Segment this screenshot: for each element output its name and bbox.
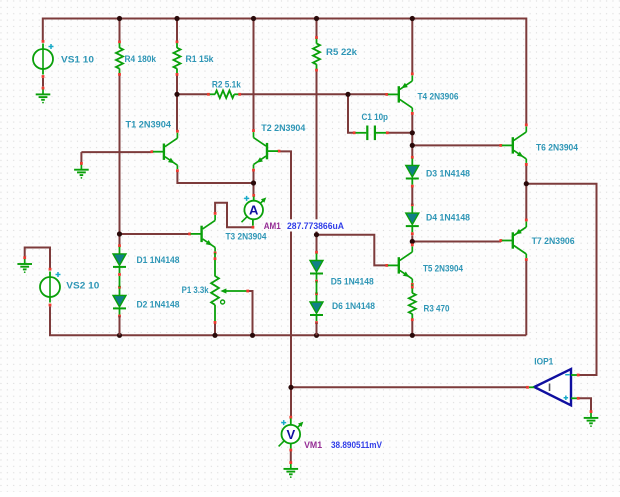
node D3 / T6 base — [410, 143, 415, 148]
node D5 / T5 base — [314, 232, 319, 237]
diode D4 — [406, 204, 419, 236]
node bottom rail / D2 — [117, 333, 122, 338]
svg-text:A: A — [249, 203, 259, 218]
svg-text:D2 1N4148: D2 1N4148 — [137, 299, 180, 310]
node D1 / T3 base — [117, 231, 122, 236]
svg-text:R2 5.1k: R2 5.1k — [212, 80, 242, 91]
diode D1 — [113, 244, 126, 276]
wire R4 top — [119, 19, 121, 42]
svg-text:IOP1: IOP1 — [534, 356, 554, 367]
transistor T6 — [499, 124, 527, 166]
ground VS1 — [36, 78, 51, 103]
wire T3 emitter to P1 — [214, 253, 216, 259]
voltage source VS1 — [33, 40, 54, 78]
svg-text:T2 2N3904: T2 2N3904 — [261, 123, 306, 134]
wire IOP1 output row — [291, 386, 528, 388]
svg-text:V: V — [286, 427, 295, 442]
ammeter AM1 — [242, 194, 267, 229]
svg-text:T7 2N3906: T7 2N3906 — [532, 236, 575, 247]
wire T6 emitter to T7 emitter — [525, 164, 527, 220]
diode D5 — [310, 251, 323, 283]
node bottom rail / P1 — [212, 333, 217, 338]
svg-text:T6 2N3904: T6 2N3904 — [536, 143, 579, 154]
wire R5 top — [316, 19, 318, 38]
node R1 / R2 — [174, 92, 179, 97]
wire T3 collector to AM1 — [215, 203, 253, 227]
resistor R1 — [174, 41, 181, 76]
node T4 collector / C1 — [410, 130, 415, 135]
node bottom rail / P1 wiper — [250, 333, 255, 338]
wire T7 collector down — [525, 260, 527, 336]
wire T5 emitter to R3 — [411, 284, 413, 288]
resistor R4 — [116, 41, 123, 76]
wire T1 emitter to node E — [177, 171, 253, 183]
op-amp buffer IOP1 — [526, 369, 580, 405]
wire R1 bottom to T1 collector — [176, 75, 178, 132]
svg-text:T1 2N3904: T1 2N3904 — [126, 119, 172, 130]
node top rail / T2 collector — [251, 16, 256, 21]
svg-text:287.773866uA: 287.773866uA — [287, 221, 344, 232]
node top rail / R4 — [117, 16, 122, 21]
svg-text:D4 1N4148: D4 1N4148 — [426, 212, 470, 223]
wire bottom rail — [50, 307, 526, 336]
capacitor C1 — [353, 126, 389, 141]
node feedback / IOP1 output — [288, 385, 293, 390]
node emitters T1 T2 — [251, 180, 256, 185]
wire D2 to rail — [119, 316, 121, 335]
wire node R2 left — [177, 93, 209, 95]
wire P1 bottom to rail — [214, 322, 216, 335]
wire P1 wiper to rail — [248, 291, 253, 335]
svg-text:D5 1N4148: D5 1N4148 — [331, 276, 374, 287]
svg-text:C1 10p: C1 10p — [362, 112, 389, 123]
wire VM1 to ground — [290, 450, 292, 463]
wire R1 top — [176, 19, 178, 42]
wire D5 to D6 — [316, 281, 318, 294]
diode D3 — [406, 156, 419, 188]
wire C1 right to T4 collector — [389, 132, 413, 134]
svg-text:T3 2N3904: T3 2N3904 — [226, 231, 268, 242]
transistor T3 — [188, 212, 216, 254]
wire R4 bottom to D1 — [119, 75, 121, 246]
transistor T5 — [385, 244, 413, 286]
wire node E to AM1 — [253, 171, 255, 196]
diode D2 — [113, 286, 126, 318]
node D4 / T5 collector / T7 base — [410, 239, 415, 244]
wire D1 to D2 — [119, 276, 121, 287]
wire D6 to rail — [316, 323, 318, 336]
svg-text:AM1: AM1 — [264, 221, 282, 232]
wire D3 to D4 — [411, 188, 413, 205]
node top rail / T4 emitter — [410, 16, 415, 21]
svg-text:T4 2N3906: T4 2N3906 — [418, 91, 459, 102]
wire VS2 plus to ground — [25, 248, 50, 269]
ground VM1 — [284, 461, 299, 478]
wire C1 left branch — [348, 94, 355, 133]
svg-text:D1 1N4148: D1 1N4148 — [137, 255, 180, 266]
svg-text:VS1 10: VS1 10 — [61, 54, 94, 65]
svg-text:D3 1N4148: D3 1N4148 — [426, 168, 470, 179]
transistor T1 — [151, 130, 179, 172]
resistor R5 — [313, 36, 320, 71]
svg-text:R1 15k: R1 15k — [186, 54, 215, 65]
node top rail / R1 — [174, 16, 179, 21]
wire to T5 base — [317, 235, 387, 266]
svg-text:R5 22k: R5 22k — [326, 47, 358, 58]
wire top supply rail — [43, 19, 527, 126]
wire T2 base feedback line — [279, 151, 292, 417]
ground VS2 — [17, 256, 32, 273]
node output emitters T6 T7 — [524, 181, 529, 186]
node top rail / R5 — [314, 16, 319, 21]
transistor T7 — [499, 219, 527, 261]
wire output to IOP1 inverting input — [526, 184, 596, 375]
svg-text:38.890511mV: 38.890511mV — [331, 440, 383, 451]
resistor R3 — [409, 286, 416, 321]
wire T2 collector drop — [253, 19, 255, 132]
wire top rail to T4 emitter — [411, 19, 413, 76]
ground T1 base — [74, 162, 89, 179]
voltage source VS2 — [40, 268, 61, 307]
wire node to T7 base — [412, 241, 501, 243]
wire D4 to T5 collector node — [411, 235, 413, 246]
node bottom rail / D6 — [314, 333, 319, 338]
wire R2 to T4 base — [240, 93, 388, 95]
value AM1 287.773866uA — [284, 219, 347, 231]
transistor T2 — [252, 129, 280, 171]
svg-text:VS2 10: VS2 10 — [66, 281, 99, 292]
voltmeter VM1 — [279, 416, 304, 452]
wire T1 base to ground — [81, 151, 151, 153]
wire T4 collector to D3 — [411, 114, 413, 157]
diode D6 — [310, 292, 323, 324]
svg-text:R3 470: R3 470 — [424, 303, 450, 314]
resistor R2 — [207, 91, 241, 99]
wire R5 bottom to D5 — [316, 70, 318, 252]
transistor T4 — [385, 73, 413, 115]
svg-text:VM1: VM1 — [304, 440, 323, 451]
svg-text:R4 180k: R4 180k — [125, 54, 157, 65]
wire to T6 base — [412, 144, 500, 146]
svg-text:I: I — [548, 382, 551, 394]
svg-text:P1 3.3k: P1 3.3k — [182, 285, 210, 296]
node T4 base / C1 — [345, 92, 350, 97]
ground IOP1 — [584, 410, 599, 427]
wire T1 base ground riser — [80, 152, 82, 162]
wire IOP1 noninverting to ground — [579, 398, 592, 410]
svg-text:T5 2N3904: T5 2N3904 — [423, 263, 464, 274]
node bottom rail / R3 — [410, 333, 415, 338]
svg-text:D6 1N4148: D6 1N4148 — [332, 301, 375, 312]
potentiometer P1 — [211, 257, 249, 324]
wire T3 base branch — [120, 233, 190, 235]
wire R3 to bottom rail — [411, 320, 413, 335]
